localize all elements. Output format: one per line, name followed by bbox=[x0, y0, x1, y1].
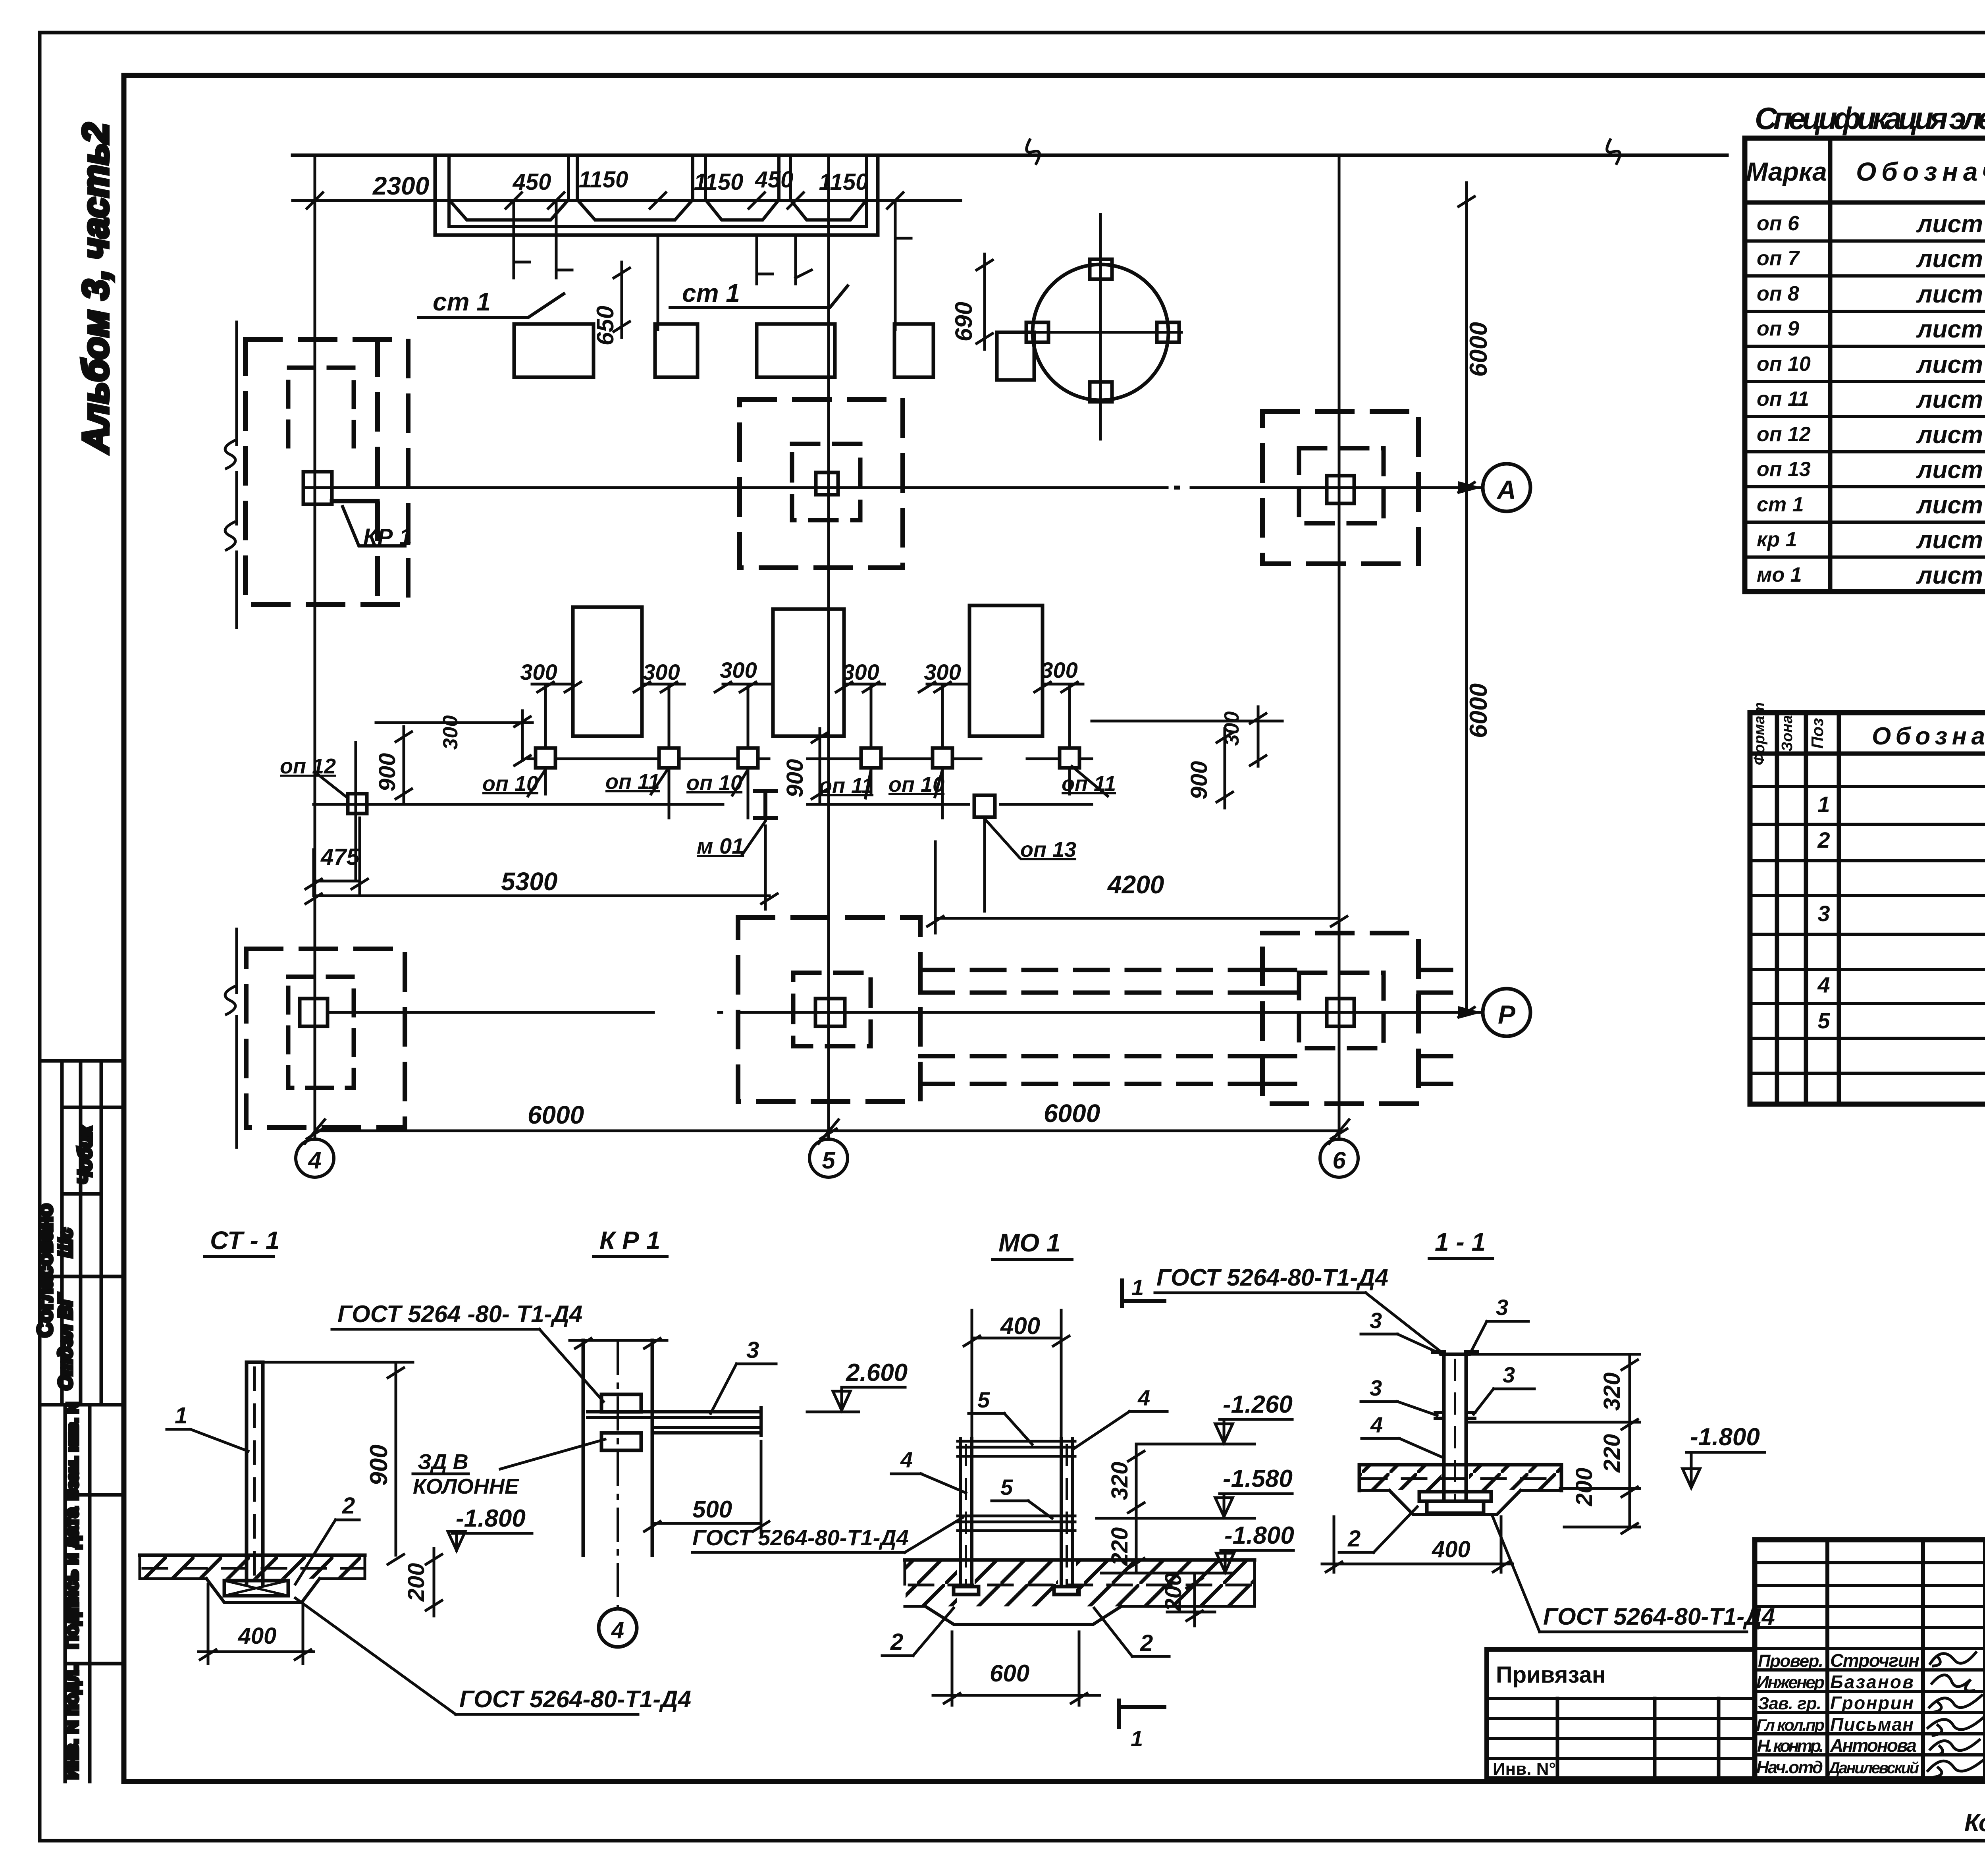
ST1 slab hidden edge bbox=[143, 1567, 363, 1570]
big pipe rect B2 bbox=[773, 609, 844, 736]
svg-text:Инв. N подл.: Инв. N подл. bbox=[61, 1665, 82, 1779]
svg-text:4: 4 bbox=[611, 1618, 624, 1643]
svg-text:5: 5 bbox=[1000, 1475, 1013, 1500]
svg-text:ст 1: ст 1 bbox=[682, 279, 740, 307]
MO1 middle beam bbox=[958, 1516, 1075, 1531]
grid circle 6 bbox=[1320, 1139, 1358, 1177]
svg-text:Подпись и дата: Подпись и дата bbox=[61, 1507, 82, 1649]
svg-text:690: 690 bbox=[950, 302, 977, 341]
svg-text:Нач.отд: Нач.отд bbox=[1756, 1758, 1823, 1777]
svg-text:3: 3 bbox=[1496, 1295, 1508, 1320]
break mark on top line bbox=[1027, 140, 1040, 164]
svg-text:ГОСТ 5264-80-Т1-Д4: ГОСТ 5264-80-Т1-Д4 bbox=[692, 1525, 909, 1550]
svg-text:1150: 1150 bbox=[694, 169, 744, 195]
vertical dim 690 bbox=[977, 254, 992, 349]
support pad rect 5 near circle bbox=[997, 332, 1034, 380]
ST1 dim 900 bbox=[263, 1362, 413, 1564]
svg-text:оп 11: оп 11 bbox=[1757, 388, 1809, 411]
svg-text:Инв. N°: Инв. N° bbox=[1493, 1759, 1556, 1779]
svg-text:ст 1: ст 1 bbox=[433, 287, 491, 316]
M01 beam symbol bbox=[755, 791, 776, 818]
tank chamber 4 profile bbox=[790, 200, 867, 220]
svg-text:оп 6: оп 6 bbox=[1757, 212, 1800, 235]
MO1 dim 200 bbox=[1167, 1573, 1215, 1626]
svg-text:Зона: Зона bbox=[1779, 715, 1796, 752]
foundation col5-P support bbox=[815, 999, 845, 1026]
svg-text:1150: 1150 bbox=[579, 167, 628, 193]
MO1 frame right channel bbox=[1061, 1438, 1072, 1587]
svg-text:Формат: Формат bbox=[1751, 702, 1768, 765]
svg-text:5: 5 bbox=[1817, 1008, 1830, 1033]
svg-text:лист 24: лист 24 bbox=[1916, 210, 1985, 238]
foundation col6-P inner dashed bbox=[1299, 973, 1384, 1048]
svg-text:900: 900 bbox=[782, 759, 808, 798]
ST1 ground line bbox=[140, 1554, 365, 1557]
tank chamber 2 profile bbox=[577, 200, 693, 220]
svg-text:1: 1 bbox=[175, 1403, 187, 1429]
foundation col4-P inner dashed bbox=[288, 977, 354, 1088]
svg-text:МО 1: МО 1 bbox=[998, 1228, 1060, 1257]
svg-text:Зав. гр.: Зав. гр. bbox=[1758, 1694, 1821, 1713]
svg-text:2.600: 2.600 bbox=[846, 1359, 908, 1386]
svg-text:400: 400 bbox=[238, 1623, 277, 1649]
11 ground bbox=[1359, 1465, 1561, 1490]
left break line upper bbox=[235, 322, 238, 628]
axis P arrow bbox=[1458, 1006, 1482, 1019]
tank chamber 1 profile bbox=[449, 200, 569, 220]
svg-text:1 - 1: 1 - 1 bbox=[1435, 1228, 1486, 1256]
foundation col4-A extra dashed vertical bbox=[375, 339, 380, 605]
axis P circle bbox=[1483, 989, 1530, 1036]
grid circle 5 bbox=[809, 1139, 848, 1177]
svg-text:900: 900 bbox=[374, 753, 400, 792]
svg-text:Копировал: Копировал bbox=[1964, 1809, 1985, 1837]
svg-text:ст 1: ст 1 bbox=[1757, 493, 1804, 516]
svg-text:лист 25: лист 25 bbox=[1916, 492, 1985, 519]
MO1 section mark top bbox=[1122, 1280, 1164, 1306]
svg-text:200: 200 bbox=[403, 1563, 429, 1602]
svg-text:4: 4 bbox=[900, 1447, 913, 1472]
bottom dim 6000 line bbox=[315, 1130, 1339, 1132]
bottom dim ticks bbox=[307, 1129, 1347, 1139]
svg-text:3: 3 bbox=[1503, 1362, 1515, 1387]
grid axis 6 vertical bbox=[1338, 155, 1341, 1138]
right vertical dim 6000 line bbox=[1465, 183, 1468, 1012]
svg-text:6: 6 bbox=[1332, 1147, 1346, 1174]
MO1 frame left channel bbox=[960, 1438, 972, 1587]
svg-text:СТ - 1: СТ - 1 bbox=[210, 1226, 279, 1255]
break mark on top line right bbox=[1607, 140, 1620, 164]
svg-text:220: 220 bbox=[1599, 1434, 1625, 1473]
axis A circle bbox=[1483, 464, 1530, 511]
svg-text:лист 25: лист 25 bbox=[1916, 526, 1985, 554]
MO1 ground hatch mid bbox=[975, 1561, 1058, 1606]
MO1 ground hatch right bbox=[1076, 1561, 1255, 1606]
svg-text:КОЛОННЕ: КОЛОННЕ bbox=[413, 1475, 520, 1498]
svg-text:КР 1: КР 1 bbox=[363, 524, 412, 550]
foundation col5-P outer dashed bbox=[738, 918, 920, 1101]
svg-text:1: 1 bbox=[1817, 792, 1830, 817]
svg-text:5: 5 bbox=[822, 1147, 836, 1174]
support square op10 c bbox=[933, 748, 952, 768]
KP1 bracket arm bbox=[332, 499, 378, 503]
foundation col5-P inner dashed bbox=[793, 973, 871, 1046]
svg-text:2300: 2300 bbox=[372, 172, 429, 200]
svg-text:Базанов: Базанов bbox=[1830, 1672, 1914, 1692]
svg-text:475: 475 bbox=[320, 844, 360, 870]
KP1 bracket support square bbox=[303, 472, 332, 504]
svg-text:1: 1 bbox=[1131, 1275, 1144, 1300]
KP1 axis circle 4 bbox=[599, 1609, 637, 1647]
svg-text:оп 7: оп 7 bbox=[1757, 247, 1800, 270]
svg-text:450: 450 bbox=[513, 169, 551, 195]
svg-text:900: 900 bbox=[365, 1444, 393, 1485]
svg-text:ГОСТ 5264-80-Т1-Д4: ГОСТ 5264-80-Т1-Д4 bbox=[1543, 1603, 1775, 1630]
support square op11 c bbox=[1060, 748, 1079, 768]
svg-text:1150: 1150 bbox=[819, 169, 869, 195]
11 weld pads mid bbox=[1435, 1413, 1475, 1418]
grid circle 4 bbox=[296, 1139, 334, 1177]
MO1 slab hidden edge bbox=[909, 1584, 1251, 1587]
circle support square top bbox=[1090, 259, 1112, 279]
11 slab hidden edge bbox=[1363, 1477, 1559, 1480]
svg-text:300: 300 bbox=[1220, 711, 1243, 746]
svg-text:5: 5 bbox=[977, 1387, 990, 1412]
ST1 column bar bbox=[247, 1362, 263, 1584]
foundation col4-A inner dashed bbox=[288, 368, 354, 446]
axis A line bbox=[333, 486, 1482, 489]
svg-text:220: 220 bbox=[1107, 1527, 1133, 1566]
left stamp strip group 2 bbox=[65, 1405, 123, 1782]
top dimension ticks bbox=[307, 193, 903, 208]
svg-text:оп 9: оп 9 bbox=[1757, 317, 1799, 340]
svg-text:300: 300 bbox=[1041, 657, 1077, 683]
svg-text:2: 2 bbox=[342, 1493, 355, 1519]
KP1 label bbox=[343, 507, 405, 546]
svg-text:900: 900 bbox=[1186, 761, 1212, 800]
circle axis vertical bbox=[1099, 214, 1102, 439]
KP1 bracket beam bbox=[588, 1407, 761, 1435]
svg-text:6000: 6000 bbox=[528, 1101, 584, 1129]
signatures squiggles bbox=[1930, 1652, 1976, 1666]
svg-text:6000: 6000 bbox=[1465, 322, 1492, 377]
top dimension line bbox=[293, 199, 961, 202]
svg-text:ЗД В: ЗД В bbox=[418, 1450, 468, 1474]
svg-text:А: А bbox=[1496, 475, 1516, 504]
MO1 top beam bbox=[958, 1441, 1075, 1456]
support pad rect 1 bbox=[514, 324, 594, 377]
svg-text:оп 13: оп 13 bbox=[1757, 458, 1811, 481]
svg-text:оп 12: оп 12 bbox=[1757, 423, 1811, 446]
ST1 pit bbox=[206, 1579, 320, 1602]
svg-text:300: 300 bbox=[842, 659, 879, 684]
svg-text:400: 400 bbox=[1432, 1537, 1470, 1562]
svg-text:4200: 4200 bbox=[1107, 870, 1164, 899]
svg-text:Марка: Марка bbox=[1746, 157, 1827, 186]
svg-text:Чобик: Чобик bbox=[75, 1125, 96, 1184]
top wall line bbox=[293, 154, 1727, 157]
svg-text:200: 200 bbox=[1571, 1468, 1597, 1507]
grid axis 4 vertical bbox=[314, 155, 316, 1138]
svg-text:300: 300 bbox=[439, 715, 462, 750]
foundation col5-A outer dashed bbox=[740, 399, 903, 568]
svg-text:ГОСТ 5264 -80- Т1-Д4: ГОСТ 5264 -80- Т1-Д4 bbox=[337, 1301, 582, 1327]
svg-text:300: 300 bbox=[520, 659, 557, 684]
foundation col5-A inner dashed bbox=[792, 444, 860, 520]
svg-text:450: 450 bbox=[755, 167, 794, 193]
left break line lower bbox=[235, 929, 238, 1147]
11 weld ticks top bbox=[1433, 1350, 1477, 1354]
lower support line bbox=[314, 803, 1092, 806]
vertical dim 650 bbox=[614, 262, 630, 337]
svg-text:лист 25: лист 25 bbox=[1916, 562, 1985, 589]
extension lines below dim ticks bbox=[514, 201, 895, 330]
MO1 ground line bbox=[905, 1558, 1255, 1562]
svg-text:4: 4 bbox=[1370, 1412, 1383, 1437]
svg-text:оп 12: оп 12 bbox=[280, 754, 336, 778]
title block signature table bbox=[1755, 1540, 1985, 1779]
svg-text:-1.260: -1.260 bbox=[1223, 1391, 1293, 1418]
svg-text:Спецификация элементов к сх: Спецификация элементов к схеме расположе… bbox=[1755, 101, 1985, 136]
11 column bbox=[1441, 1354, 1469, 1501]
tank wall lines bbox=[569, 155, 790, 200]
svg-text:лист 24: лист 24 bbox=[1916, 281, 1985, 308]
svg-text:лист 25: лист 25 bbox=[1916, 351, 1985, 378]
svg-text:-1.800: -1.800 bbox=[1690, 1423, 1760, 1451]
circle axis horizontal bbox=[1027, 331, 1181, 334]
svg-text:Антонова: Антонова bbox=[1830, 1735, 1917, 1756]
support square op10 b bbox=[738, 748, 758, 768]
svg-text:Привязан: Привязан bbox=[1496, 1662, 1606, 1688]
MO1 pit bbox=[925, 1606, 1121, 1624]
left stamp strip group 1 bbox=[40, 1061, 123, 1405]
svg-text:лист 25: лист 25 bbox=[1916, 421, 1985, 449]
svg-text:Провер.: Провер. bbox=[1758, 1651, 1823, 1671]
svg-text:2: 2 bbox=[1347, 1526, 1361, 1552]
foundation col6-P outer dashed bbox=[1262, 933, 1418, 1104]
KP1 column top dim bbox=[570, 1338, 667, 1348]
axis A arrow bbox=[1458, 481, 1482, 494]
KP1 weld pad top bbox=[601, 1394, 641, 1412]
svg-text:Согласовано: Согласовано bbox=[34, 1204, 57, 1337]
op12 vertical bbox=[355, 742, 357, 881]
MO1 dim 220 bbox=[1128, 1518, 1144, 1573]
support square op11 b bbox=[861, 748, 881, 768]
svg-text:лист 24: лист 24 bbox=[1916, 245, 1985, 273]
11 base plates bbox=[1419, 1492, 1491, 1501]
circle leader ticks bbox=[305, 1120, 1349, 1143]
ST1 dim 400 bbox=[198, 1584, 314, 1664]
svg-text:-1.800: -1.800 bbox=[456, 1505, 526, 1532]
svg-text:кр 1: кр 1 bbox=[1757, 528, 1797, 551]
svg-text:400: 400 bbox=[1000, 1313, 1040, 1339]
KP1 weld pad bottom bbox=[601, 1433, 641, 1450]
circle support square bottom bbox=[1090, 382, 1112, 402]
svg-text:оп 11: оп 11 bbox=[605, 770, 660, 794]
svg-text:лист 25: лист 25 bbox=[1916, 456, 1985, 484]
MO1 dim 320 bbox=[1128, 1444, 1144, 1518]
svg-text:600: 600 bbox=[990, 1660, 1029, 1687]
svg-text:Гл кол.пр: Гл кол.пр bbox=[1756, 1716, 1825, 1734]
svg-text:-1.580: -1.580 bbox=[1223, 1465, 1293, 1492]
binding box bbox=[1487, 1649, 1755, 1779]
svg-text:Гронрин: Гронрин bbox=[1830, 1693, 1914, 1713]
svg-text:320: 320 bbox=[1107, 1462, 1133, 1500]
big pipe rect B3 bbox=[969, 605, 1043, 736]
svg-text:2: 2 bbox=[890, 1629, 903, 1655]
leaders op labels bbox=[528, 766, 1108, 798]
foundation col5-A support bbox=[816, 472, 838, 495]
svg-text:мо 1: мо 1 bbox=[1757, 563, 1802, 586]
hook marks bbox=[514, 238, 911, 278]
svg-text:ГОСТ 5264-80-Т1-Д4: ГОСТ 5264-80-Т1-Д4 bbox=[1156, 1264, 1388, 1291]
big pipe rect B1 bbox=[573, 607, 642, 736]
equipment circle bbox=[1033, 264, 1168, 400]
foundation col6-P support bbox=[1327, 999, 1354, 1026]
svg-text:Поз: Поз bbox=[1808, 718, 1827, 748]
support pad rect 3 bbox=[757, 324, 835, 377]
svg-text:-1.800: -1.800 bbox=[1224, 1522, 1294, 1549]
svg-text:650: 650 bbox=[592, 306, 619, 345]
svg-text:500: 500 bbox=[692, 1496, 732, 1523]
foundation col4-P support bbox=[300, 999, 328, 1026]
svg-text:300: 300 bbox=[720, 657, 757, 683]
svg-text:м 01: м 01 bbox=[697, 833, 744, 858]
op13 support square bbox=[974, 795, 995, 817]
svg-text:оп 8: оп 8 bbox=[1757, 282, 1799, 305]
svg-text:3: 3 bbox=[1817, 901, 1830, 926]
foundation col4-P outer dashed bbox=[246, 949, 405, 1128]
materials table grid bbox=[1750, 713, 1985, 1104]
ST1 ground hatch bbox=[140, 1556, 365, 1579]
svg-text:Н. контр.: Н. контр. bbox=[1757, 1736, 1824, 1756]
spec table headers bbox=[1746, 151, 1985, 589]
svg-text:300: 300 bbox=[643, 659, 680, 684]
svg-text:3: 3 bbox=[1370, 1308, 1382, 1333]
svg-text:Письман: Письман bbox=[1830, 1714, 1914, 1735]
KP1 centerline bbox=[617, 1342, 619, 1608]
foundation col6-A support bbox=[1327, 476, 1354, 503]
MO1 foot plates bbox=[954, 1587, 979, 1595]
tank chamber 3 profile bbox=[705, 200, 779, 220]
svg-text:6000: 6000 bbox=[1465, 683, 1492, 738]
axis P line bbox=[330, 1011, 1482, 1014]
svg-text:4: 4 bbox=[308, 1147, 321, 1174]
svg-text:Взам. инв. N: Взам. инв. N bbox=[64, 1402, 81, 1500]
op12 support square bbox=[348, 794, 367, 814]
svg-text:лист 24: лист 24 bbox=[1916, 316, 1985, 343]
pipe corridor dashed lines bbox=[920, 970, 1463, 1084]
dim 300 line segments bbox=[532, 683, 1083, 686]
11 right dims bbox=[1469, 1354, 1640, 1533]
grid axis 5 vertical bbox=[827, 155, 830, 1138]
svg-text:3: 3 bbox=[746, 1337, 759, 1363]
support pad rect 2 bbox=[655, 324, 698, 377]
svg-text:1: 1 bbox=[1131, 1726, 1143, 1751]
svg-text:2: 2 bbox=[1140, 1630, 1153, 1656]
svg-text:лист 25: лист 25 bbox=[1916, 386, 1985, 413]
svg-text:3: 3 bbox=[1370, 1375, 1382, 1400]
svg-text:320: 320 bbox=[1599, 1373, 1625, 1411]
svg-text:Строчгин: Строчгин bbox=[1830, 1650, 1919, 1671]
svg-text:200: 200 bbox=[1160, 1573, 1186, 1612]
svg-text:2: 2 bbox=[1817, 827, 1830, 852]
svg-text:оп 10: оп 10 bbox=[1757, 353, 1811, 376]
svg-text:оп 11: оп 11 bbox=[1062, 772, 1116, 796]
support squares line bbox=[528, 758, 1092, 760]
svg-text:300: 300 bbox=[924, 659, 961, 684]
svg-text:Р: Р bbox=[1498, 1000, 1516, 1029]
MO1 ground hatch left bbox=[906, 1561, 957, 1606]
ST1 base plate 2 bbox=[224, 1581, 288, 1596]
svg-text:4: 4 bbox=[1137, 1385, 1150, 1410]
11 pit bbox=[1389, 1490, 1521, 1515]
6000 dim ticks bbox=[1459, 197, 1474, 1017]
support square op10 a bbox=[536, 748, 555, 768]
support square op11 a bbox=[659, 748, 679, 768]
support pad rect 4 bbox=[894, 324, 933, 377]
MO1 section mark bottom bbox=[1119, 1701, 1164, 1727]
dim 300 ticks bbox=[538, 682, 1077, 692]
channel tanks outer box bbox=[435, 155, 878, 235]
svg-text:Отдэл ВГ: Отдэл ВГ bbox=[55, 1293, 76, 1390]
foundation col6-A outer dashed bbox=[1262, 411, 1418, 564]
svg-text:4: 4 bbox=[1817, 972, 1830, 997]
spec table grid bbox=[1745, 138, 1985, 592]
extension verticals for supports bbox=[545, 684, 1070, 818]
svg-text:оп 13: оп 13 bbox=[1020, 838, 1076, 862]
ST1 dim 200 bbox=[426, 1548, 442, 1616]
svg-text:5300: 5300 bbox=[501, 867, 557, 896]
foundation col6-A inner dashed bbox=[1299, 448, 1384, 523]
circle support square right bbox=[1157, 322, 1179, 342]
svg-text:Данилевский: Данилевский bbox=[1827, 1759, 1919, 1777]
svg-text:К Р 1: К Р 1 bbox=[599, 1226, 660, 1255]
copied by line bbox=[1964, 1805, 1985, 1837]
svg-text:6000: 6000 bbox=[1044, 1099, 1100, 1128]
svg-text:ГОСТ 5264-80-Т1-Д4: ГОСТ 5264-80-Т1-Д4 bbox=[459, 1686, 691, 1712]
svg-text:Альбом 3, часть2: Альбом 3, часть2 bbox=[75, 123, 116, 454]
circle support square left bbox=[1026, 322, 1048, 342]
svg-text:Инженер: Инженер bbox=[1756, 1673, 1825, 1692]
KP1 column flanges bbox=[583, 1340, 652, 1555]
foundation col4-A outer dashed bbox=[245, 339, 408, 605]
svg-text:Шс: Шс bbox=[55, 1228, 76, 1257]
